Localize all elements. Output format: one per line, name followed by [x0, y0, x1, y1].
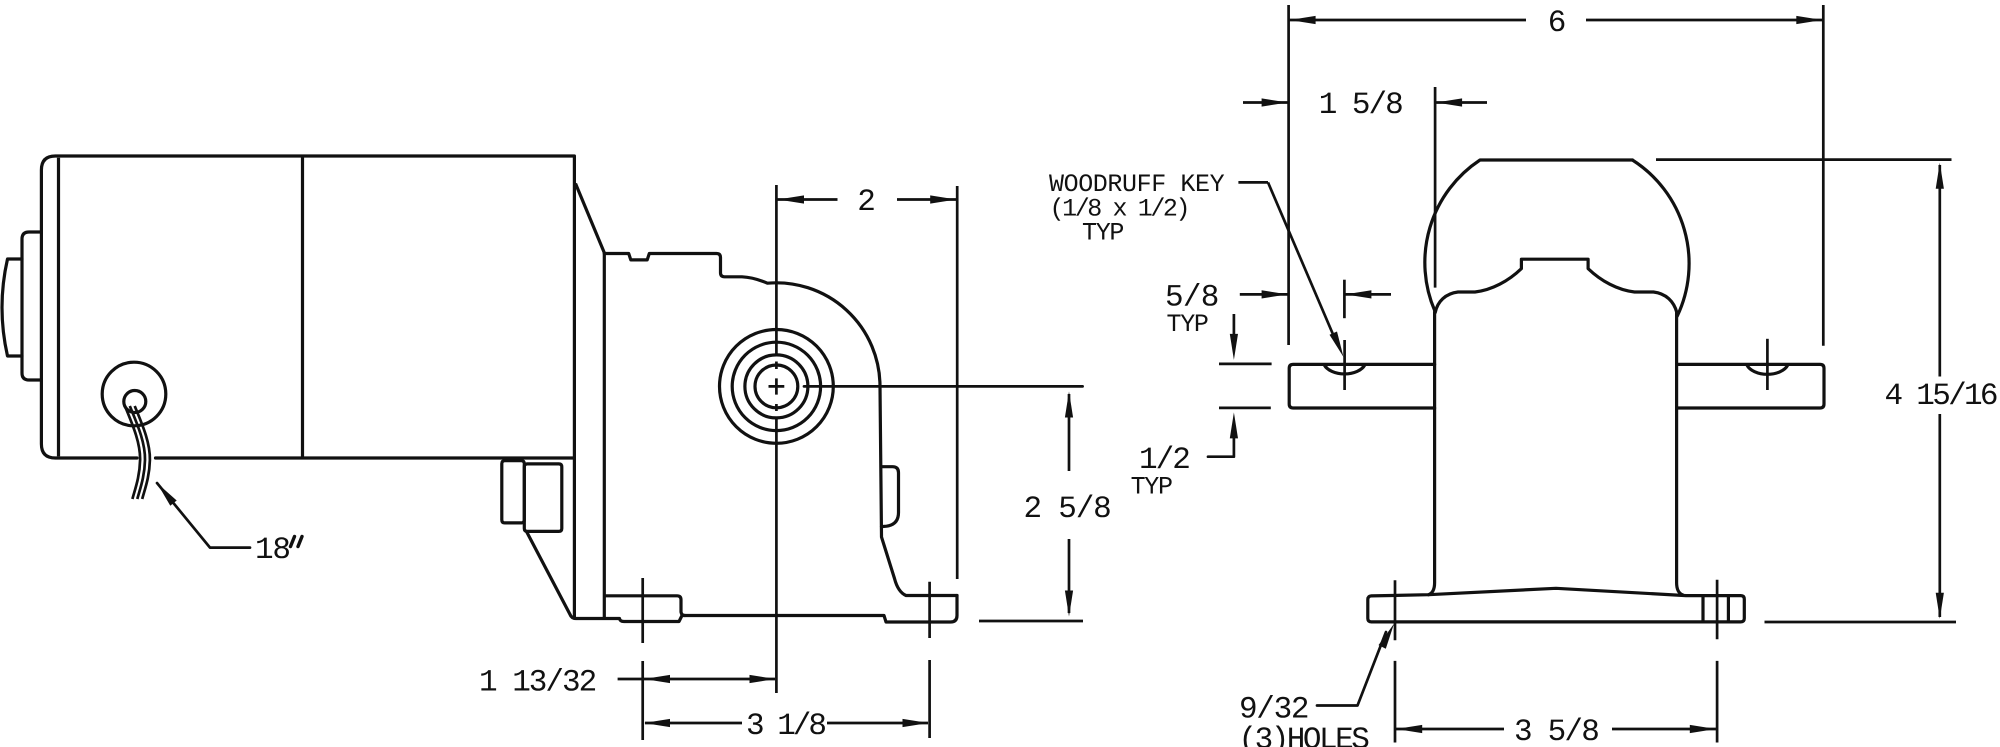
dimension "1/2" lower bracket: [1208, 434, 1234, 457]
right hole centerline: [1716, 580, 1719, 743]
gear housing left side: [1429, 312, 1435, 595]
dimension "1 5/8" right arrow: [1436, 98, 1462, 106]
lead wires (3 strands): [125, 406, 140, 499]
motor frame divider: [301, 158, 304, 457]
rear shaft hub dome: [2, 259, 22, 356]
dimension "2 5/8" up arrow: [1065, 392, 1073, 418]
output shaft right end: [1677, 364, 1824, 408]
dimension "5/8" left tail: [1240, 293, 1288, 296]
dimension "1/2" upper shaft: [1233, 314, 1236, 337]
lead-wire grommet outer: [102, 362, 166, 426]
leader line for wire length: [157, 483, 250, 548]
dimension "6" line right part: [1586, 19, 1823, 22]
gear housing right side: [1677, 312, 1683, 595]
left woodruff key: [1324, 365, 1365, 374]
dimension "6" line left part: [1290, 19, 1527, 22]
dimension "4 15/16" up arrow: [1936, 163, 1944, 189]
svg-text:TYP: TYP: [1082, 219, 1123, 248]
dimension "3 5/8" right arrow: [1690, 725, 1716, 733]
dimension "2 5/8" line lower: [1068, 539, 1071, 613]
dimension "5/8" right arrow: [1345, 290, 1371, 298]
output shaft circle: [755, 365, 798, 408]
leader arrow to wires: [157, 483, 177, 506]
motor dome (end view) flat top and left side: [1425, 160, 1633, 311]
woodruff key leader diagonal: [1268, 182, 1335, 339]
right flange hole left edge: [1701, 596, 1704, 622]
dimension "5/8" right tail: [1345, 293, 1391, 296]
left foot centerline: [641, 578, 644, 740]
output shaft left end: [1289, 364, 1434, 408]
motor end-cap seam: [57, 158, 60, 457]
leader line for flange holes: [1317, 632, 1386, 706]
svg-text:2 5/8: 2 5/8: [1024, 492, 1111, 527]
svg-text:4 15/16: 4 15/16: [1885, 379, 1997, 414]
right flange hole right edge: [1727, 596, 1730, 622]
dome top extension line: [1656, 158, 1952, 161]
output shaft boss circle 3: [745, 355, 808, 418]
gearbox housing outline: [604, 254, 957, 596]
leader arrow to hole: [1379, 624, 1395, 649]
dimension "1 5/8" left arrow: [1262, 98, 1288, 106]
dimension "1 13/32" line: [618, 678, 775, 681]
dimension "2" line right part: [897, 198, 956, 201]
svg-text:6: 6: [1548, 6, 1565, 41]
horizontal centerline of shaft: [804, 385, 1083, 388]
woodruff key leader arrow: [1330, 332, 1344, 358]
shaft right end extension line: [1822, 5, 1825, 346]
dimension "1 5/8" right tail: [1436, 101, 1487, 104]
gearbox front plate right edge: [603, 253, 606, 619]
dimension "2" right arrow: [930, 195, 956, 203]
dimension "6" right arrow: [1796, 16, 1822, 24]
vertical centerline of shaft: [775, 185, 778, 693]
conduit box front half: [524, 464, 562, 532]
rear bearing boss: [22, 232, 41, 380]
dimension "1 13/32" right arrow: [750, 675, 776, 683]
conduit box rear half: [502, 461, 525, 523]
output shaft boss circle 1: [720, 330, 834, 444]
gearbox base bottom outline: [527, 532, 958, 623]
dimension "6" left arrow: [1290, 16, 1316, 24]
housing left face extension line: [1434, 87, 1437, 288]
flange bottom extension line: [1765, 621, 1957, 624]
side lug on gearbox: [882, 467, 899, 527]
svg-text:1 5/8: 1 5/8: [1319, 88, 1402, 123]
shaft center mark: [769, 378, 785, 394]
gear housing arch with key notch: [1435, 259, 1677, 312]
dimension "3 5/8" left arrow: [1396, 725, 1422, 733]
svg-text:TYP: TYP: [1131, 473, 1172, 502]
base line extension: [979, 620, 1083, 623]
svg-text:TYP: TYP: [1167, 310, 1208, 339]
dimension "3 5/8" line left part: [1396, 728, 1504, 731]
svg-text:3 5/8: 3 5/8: [1514, 715, 1598, 747]
motor body (side view): [41, 156, 574, 458]
dimension "2 5/8" down arrow: [1065, 591, 1073, 617]
svg-text:1 13/32: 1 13/32: [479, 665, 596, 700]
dimension "4 15/16" down arrow: [1936, 593, 1944, 619]
dimension "1 5/8" left tail: [1243, 101, 1288, 104]
shaft bottom extension line: [1219, 407, 1271, 410]
dimension "2" left arrow: [778, 195, 804, 203]
gearbox adapter chamfer: [576, 184, 605, 253]
svg-text:18: 18: [255, 533, 290, 568]
gearbox front plate left edge: [573, 458, 576, 619]
dimension "3 1/8" right arrow: [903, 719, 929, 727]
dimension "1 13/32" left arrow: [644, 675, 670, 683]
output shaft boss circle 2: [732, 342, 820, 430]
dimension "5/8" left arrow: [1262, 290, 1288, 298]
key centerline extension: [1343, 280, 1346, 319]
dimension "4 15/16" line lower: [1938, 414, 1941, 617]
dimension "2" line left part: [778, 198, 838, 201]
left key centerline: [1343, 340, 1346, 390]
left foot pad: [605, 596, 685, 616]
lead-wire grommet inner: [124, 391, 146, 413]
left hole centerline: [1394, 580, 1397, 742]
dimension "4 15/16" line upper: [1938, 165, 1941, 377]
svg-text:(3)HOLES: (3)HOLES: [1239, 723, 1370, 747]
woodruff key leader dash: [1238, 181, 1268, 184]
shaft top extension line: [1219, 363, 1272, 366]
dimension "3 1/8" line right part: [827, 722, 928, 725]
mounting flange: [1368, 588, 1745, 622]
inch double-prime mark: [291, 537, 303, 547]
dimension "3 1/8" left arrow: [644, 719, 670, 727]
dimension "1/2" up arrow: [1230, 412, 1238, 438]
extension line right of gearbox: [956, 186, 959, 579]
right key centerline: [1766, 339, 1769, 390]
right woodruff key: [1747, 365, 1788, 375]
dimension "2 5/8" line upper: [1068, 394, 1071, 471]
dimension "3 5/8" line right part: [1612, 728, 1716, 731]
shaft left end extension line: [1287, 5, 1290, 345]
dimension "3 1/8" line left part: [645, 722, 742, 725]
svg-text:3 1/8: 3 1/8: [746, 709, 825, 744]
motor dome (end view) right side: [1632, 160, 1689, 316]
right foot centerline: [928, 582, 931, 738]
svg-text:2: 2: [857, 185, 874, 220]
dimension "1/2" down arrow: [1230, 334, 1238, 360]
